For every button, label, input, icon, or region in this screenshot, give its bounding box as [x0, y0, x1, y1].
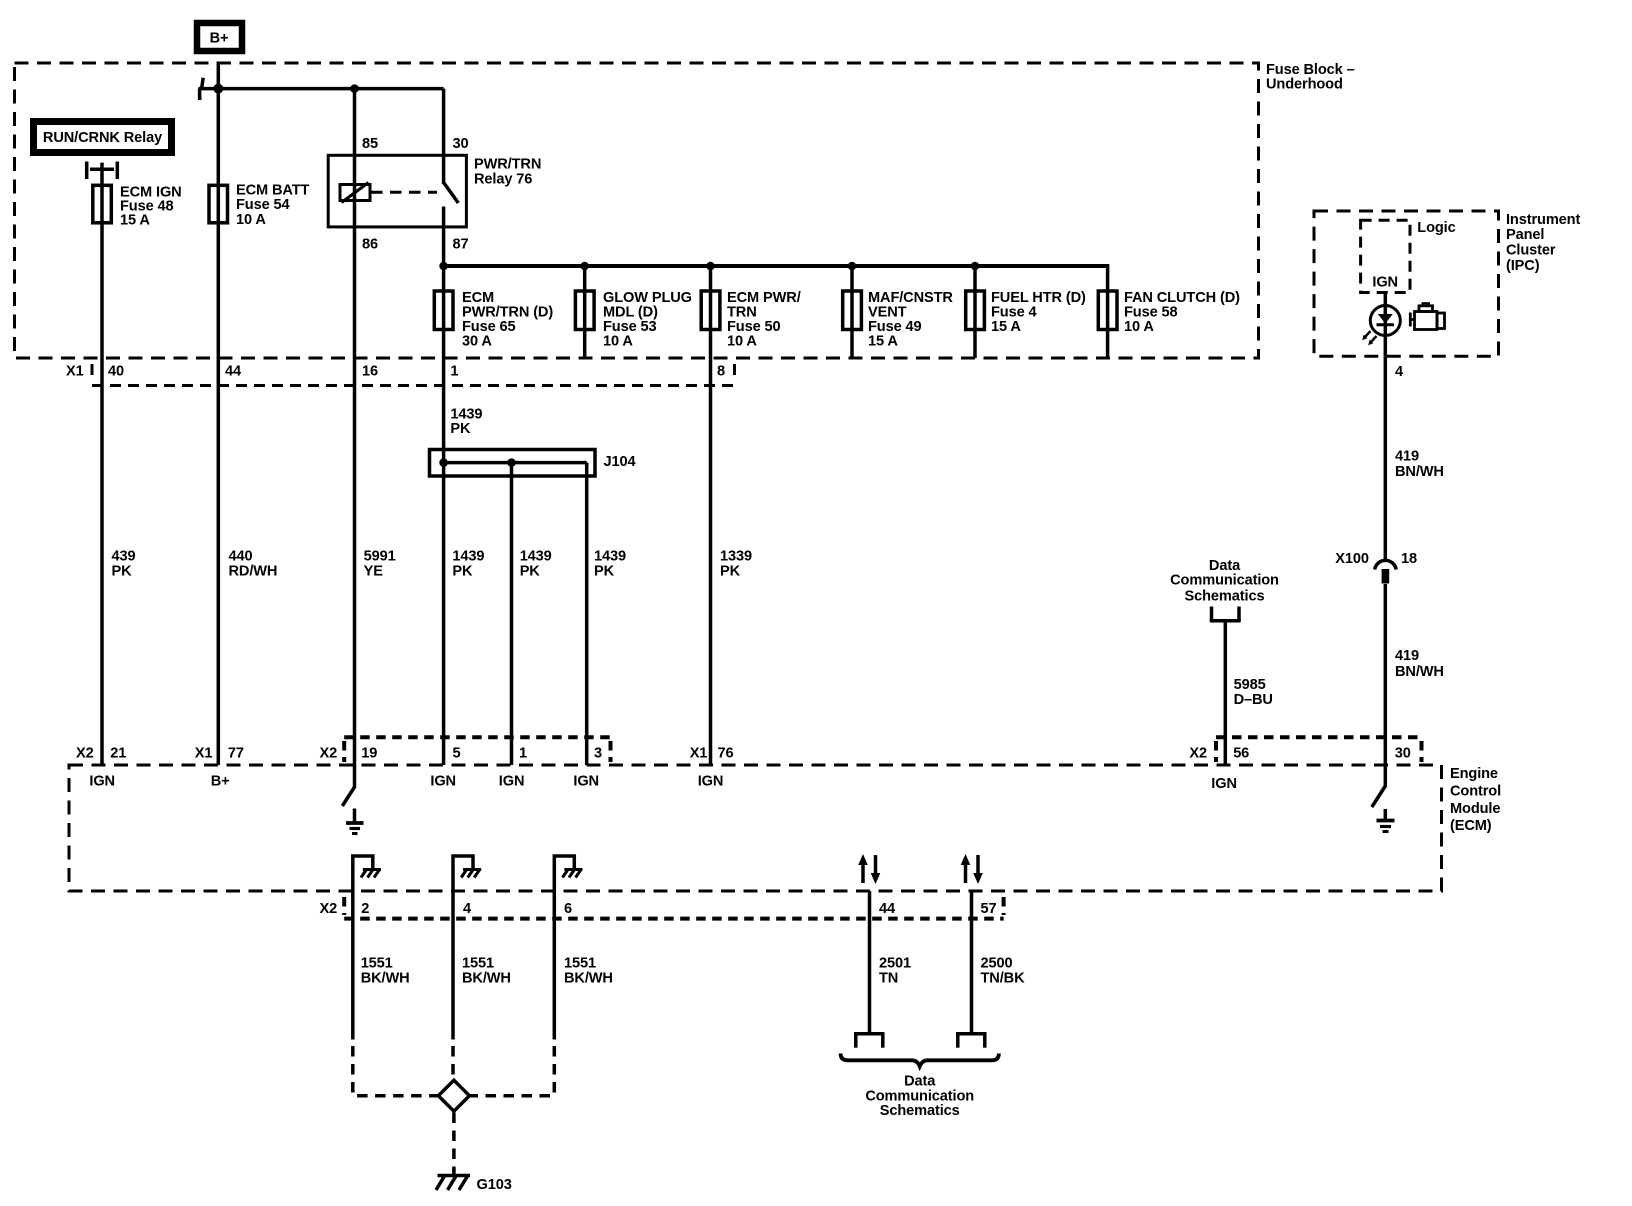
svg-text:30: 30 [1395, 746, 1411, 762]
svg-text:Cluster: Cluster [1506, 243, 1556, 259]
svg-text:440: 440 [229, 549, 253, 565]
svg-text:D–BU: D–BU [1234, 692, 1273, 708]
svg-text:BN/WH: BN/WH [1395, 664, 1444, 680]
svg-text:4: 4 [1395, 364, 1404, 380]
svg-text:15 A: 15 A [120, 213, 150, 229]
svg-text:30 A: 30 A [462, 334, 492, 350]
svg-text:2500: 2500 [981, 956, 1013, 972]
svg-text:B+: B+ [210, 31, 229, 47]
svg-text:TN/BK: TN/BK [981, 971, 1026, 987]
svg-text:B+: B+ [211, 774, 230, 790]
svg-text:15 A: 15 A [868, 334, 898, 350]
svg-text:BK/WH: BK/WH [361, 971, 410, 987]
svg-text:76: 76 [718, 746, 734, 762]
svg-text:1551: 1551 [462, 956, 494, 972]
svg-text:Schematics: Schematics [880, 1103, 960, 1119]
svg-text:RUN/CRNK Relay: RUN/CRNK Relay [43, 130, 163, 146]
svg-text:1439: 1439 [594, 549, 626, 565]
svg-text:(ECM): (ECM) [1450, 818, 1492, 834]
svg-text:10 A: 10 A [236, 212, 266, 228]
svg-text:Engine: Engine [1450, 766, 1498, 782]
svg-text:PWR/TRN: PWR/TRN [474, 157, 541, 173]
svg-text:IGN: IGN [89, 774, 115, 790]
svg-text:X2: X2 [1189, 746, 1207, 762]
svg-text:4: 4 [463, 901, 472, 917]
svg-text:IGN: IGN [573, 774, 599, 790]
svg-text:PK: PK [594, 563, 615, 579]
svg-text:87: 87 [453, 237, 469, 253]
svg-text:419: 419 [1395, 648, 1419, 664]
svg-text:44: 44 [225, 364, 242, 380]
svg-text:Communication: Communication [1170, 573, 1279, 589]
svg-text:Underhood: Underhood [1266, 77, 1343, 93]
svg-text:PK: PK [112, 563, 133, 579]
svg-text:6: 6 [564, 901, 572, 917]
svg-text:2501: 2501 [879, 956, 911, 972]
svg-text:57: 57 [981, 901, 997, 917]
svg-text:5985: 5985 [1234, 677, 1266, 693]
svg-text:X1: X1 [195, 746, 213, 762]
svg-text:PK: PK [720, 563, 741, 579]
svg-text:85: 85 [362, 136, 378, 152]
svg-text:1551: 1551 [361, 956, 393, 972]
svg-text:44: 44 [879, 901, 896, 917]
svg-text:X2: X2 [320, 746, 338, 762]
svg-text:1: 1 [519, 746, 527, 762]
svg-text:YE: YE [364, 563, 384, 579]
svg-text:BK/WH: BK/WH [564, 971, 613, 987]
svg-text:X2: X2 [76, 746, 94, 762]
svg-text:56: 56 [1233, 746, 1249, 762]
svg-text:X1: X1 [690, 746, 708, 762]
svg-text:8: 8 [717, 364, 725, 380]
svg-text:1439: 1439 [450, 406, 482, 422]
svg-text:Logic: Logic [1417, 220, 1455, 236]
svg-text:5991: 5991 [364, 549, 396, 565]
svg-text:86: 86 [362, 237, 378, 253]
svg-text:PK: PK [450, 421, 471, 437]
svg-text:5: 5 [453, 746, 461, 762]
svg-text:Data: Data [904, 1074, 936, 1090]
svg-text:PK: PK [520, 563, 541, 579]
svg-text:RD/WH: RD/WH [229, 563, 278, 579]
svg-text:Relay 76: Relay 76 [474, 172, 532, 188]
svg-text:IGN: IGN [1211, 776, 1237, 792]
svg-text:3: 3 [594, 746, 602, 762]
svg-text:X1: X1 [66, 364, 84, 380]
svg-text:439: 439 [112, 549, 136, 565]
svg-text:19: 19 [361, 746, 377, 762]
svg-text:1551: 1551 [564, 956, 596, 972]
svg-text:(IPC): (IPC) [1506, 258, 1540, 274]
svg-text:X2: X2 [320, 901, 338, 917]
svg-text:BN/WH: BN/WH [1395, 464, 1444, 480]
svg-text:10 A: 10 A [727, 334, 757, 350]
svg-text:Panel: Panel [1506, 227, 1544, 243]
svg-text:10 A: 10 A [1124, 319, 1154, 335]
svg-text:IGN: IGN [499, 774, 525, 790]
svg-text:2: 2 [361, 901, 369, 917]
svg-text:IGN: IGN [1372, 275, 1398, 291]
svg-text:15 A: 15 A [991, 319, 1021, 335]
svg-text:419: 419 [1395, 449, 1419, 465]
svg-text:Control: Control [1450, 784, 1501, 800]
svg-text:Communication: Communication [865, 1088, 974, 1104]
svg-text:G103: G103 [477, 1177, 512, 1193]
svg-text:77: 77 [228, 746, 244, 762]
svg-text:IGN: IGN [698, 774, 724, 790]
svg-text:18: 18 [1401, 551, 1417, 567]
svg-text:Module: Module [1450, 801, 1500, 817]
svg-text:1439: 1439 [452, 549, 484, 565]
svg-text:BK/WH: BK/WH [462, 971, 511, 987]
svg-text:10 A: 10 A [603, 334, 633, 350]
svg-text:40: 40 [108, 364, 124, 380]
svg-text:1: 1 [450, 364, 458, 380]
svg-text:30: 30 [453, 136, 469, 152]
svg-text:Fuse 54: Fuse 54 [236, 197, 291, 213]
svg-text:21: 21 [110, 746, 126, 762]
svg-text:IGN: IGN [430, 774, 456, 790]
svg-text:1439: 1439 [520, 549, 552, 565]
svg-text:1339: 1339 [720, 549, 752, 565]
svg-text:X100: X100 [1335, 551, 1369, 567]
svg-text:Schematics: Schematics [1185, 588, 1265, 604]
svg-text:J104: J104 [604, 454, 637, 470]
svg-text:Instrument: Instrument [1506, 212, 1580, 228]
svg-text:PK: PK [452, 563, 473, 579]
svg-text:16: 16 [362, 364, 378, 380]
svg-text:TN: TN [879, 971, 898, 987]
